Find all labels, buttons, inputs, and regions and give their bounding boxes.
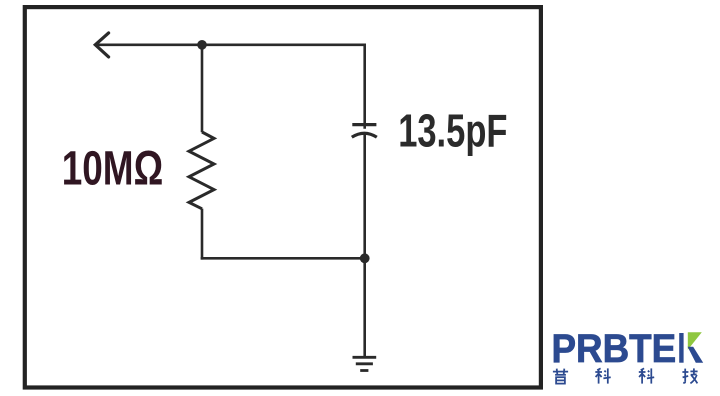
logo Chinese character 技 (682, 368, 697, 383)
logo Chinese character 科 (1st) (595, 368, 610, 383)
resistor R 10M zigzag (189, 132, 214, 209)
wire: left branch lower segment (201, 209, 204, 260)
wire: left branch upper segment (201, 45, 204, 132)
wire: top horizontal (96, 43, 365, 46)
capacitor C top plate (352, 123, 376, 126)
wire: right branch lower segment (363, 134, 366, 259)
svg-text:13.5pF: 13.5pF (398, 104, 507, 156)
node: top junction dot (197, 40, 207, 50)
svg-text:10MΩ: 10MΩ (62, 142, 164, 196)
svg-text:PRBTE: PRBTE (552, 326, 677, 371)
wire: ground stem (363, 258, 366, 357)
logo K diagonal leg (688, 347, 704, 363)
schematic frame border (25, 7, 541, 387)
capacitor C bottom curved plate (352, 133, 377, 137)
wire: bottom horizontal (201, 257, 365, 260)
logo Chinese character 普 (553, 369, 568, 384)
ground symbol (353, 357, 377, 370)
node: bottom junction dot (360, 253, 370, 263)
wire: right branch upper segment (363, 44, 366, 129)
arrowhead (probe output, pointing left) (95, 33, 108, 57)
logo Chinese character 科 (2nd) (639, 368, 654, 383)
logo green triangle (K upper arm) (688, 332, 702, 350)
logo letter K stem (679, 333, 683, 363)
